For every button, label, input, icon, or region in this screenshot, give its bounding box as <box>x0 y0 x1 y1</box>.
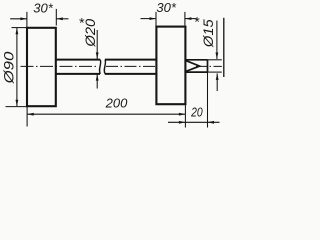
dimension Ø90: arrowheads <box>16 28 19 35</box>
dimension 200: arrowheads <box>27 113 34 116</box>
vertical rule at right margin <box>223 18 225 77</box>
svg-text:Ø20: Ø20 <box>83 19 99 48</box>
dimension 30* right: extension lines <box>156 12 185 27</box>
dimension 20: extension line at stub end <box>207 72 209 127</box>
svg-text:200: 200 <box>105 96 128 111</box>
svg-text:*: * <box>194 14 200 30</box>
shaft Ø20 left segment <box>56 60 100 74</box>
dimension Ø20*: leader line with arrow to shaft top <box>96 30 98 59</box>
dimension 20: arrowheads <box>179 121 186 124</box>
dimension Ø90: dimension line <box>16 28 18 107</box>
dimension 30* left: extension lines <box>27 9 56 28</box>
svg-text:30*: 30* <box>33 1 53 16</box>
break line left <box>99 60 100 74</box>
dimension 30* right: arrowheads <box>150 17 157 20</box>
break line right <box>104 60 105 74</box>
centerline (shaft axis, dash-dot) <box>21 65 222 67</box>
dimension Ø15*: extension lines right of stub <box>208 60 222 72</box>
dimension 30* left: dimension line <box>10 18 68 20</box>
svg-text:*: * <box>78 14 84 30</box>
center cone symbol at flange face <box>186 61 200 72</box>
stub shaft Ø15 <box>185 60 207 72</box>
svg-text:Ø15: Ø15 <box>201 18 217 48</box>
dimension Ø15*: lower arrow <box>216 73 218 91</box>
dimension Ø15*: upper arrow <box>216 21 218 59</box>
dimension 30* left: arrowheads <box>20 17 27 20</box>
shaft Ø20 right segment <box>105 60 156 74</box>
left flange Ø90 <box>27 28 56 106</box>
dimension Ø90: extension lines <box>6 28 27 107</box>
svg-text:20: 20 <box>190 106 203 120</box>
dimension 20: dimension line <box>168 121 220 123</box>
svg-text:30*: 30* <box>156 0 176 15</box>
dimension Ø20*: lower arrow to shaft bottom <box>96 74 98 88</box>
dimension 200: extension lines <box>27 104 185 127</box>
svg-text:Ø90: Ø90 <box>2 51 17 84</box>
right flange Ø90 <box>156 27 185 105</box>
dimension 30* right: dimension line <box>141 18 197 20</box>
dimension 200: dimension line <box>27 113 185 115</box>
